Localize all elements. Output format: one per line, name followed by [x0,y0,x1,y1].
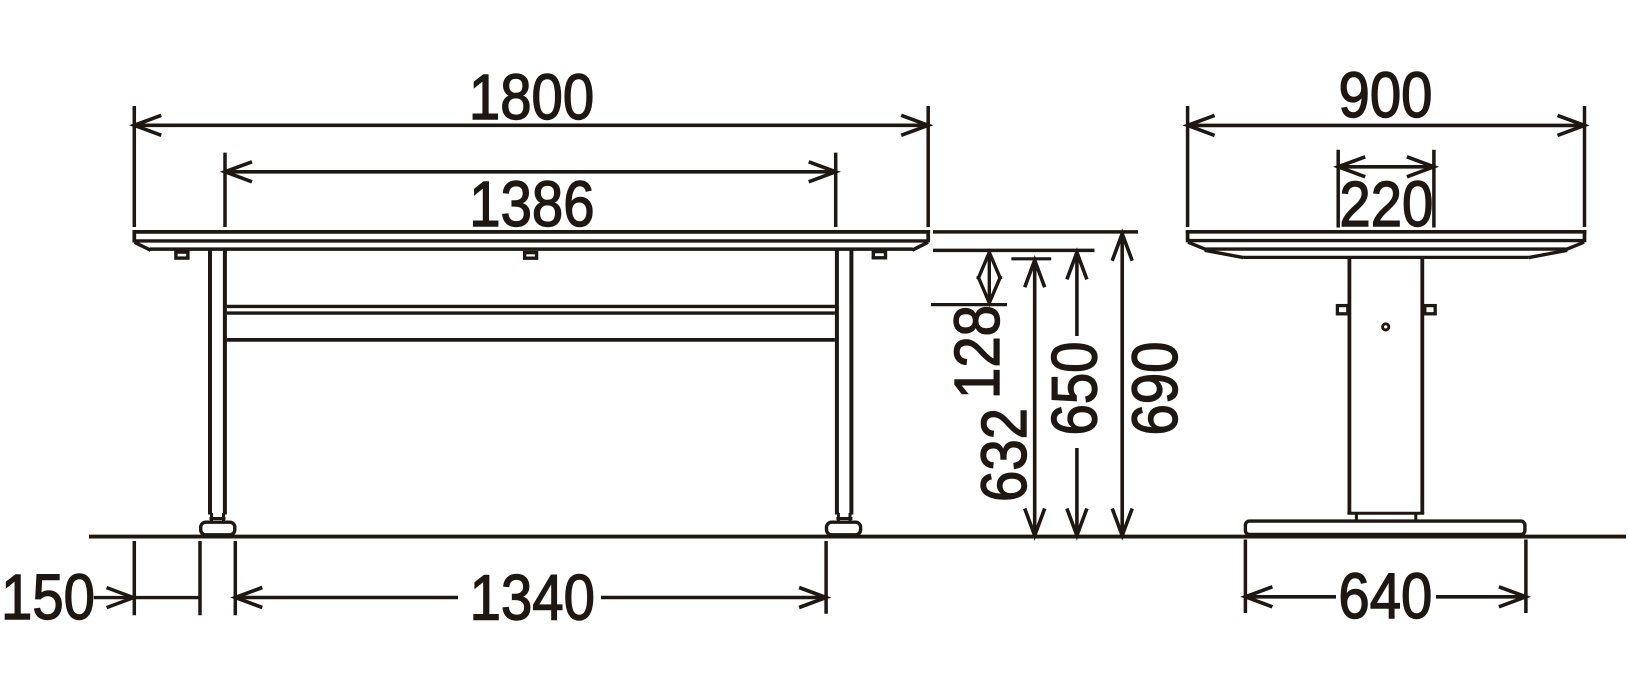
dim 640 arrow right [1499,587,1526,607]
column hole circle [1383,324,1389,330]
dim 220 line [1338,165,1434,169]
vertical ext line underside level [933,249,1095,253]
dim 150 leader line [94,596,134,599]
front tabletop middle line [134,239,928,242]
column collar line [1347,512,1424,515]
vertical ext tick 632 level [1011,257,1051,260]
dim 632 arrow up [1025,260,1045,287]
rail top line [227,305,835,308]
floor line [89,535,1626,539]
dim 640 extension right [1524,540,1528,614]
dim 632 line [1033,260,1037,535]
dim 1800 extension left [133,106,137,227]
side tabletop second line [1188,239,1585,242]
side tabletop left bevel upper [1188,242,1206,249]
dim 1340 line right segment [601,596,826,600]
left leg outer line [208,251,212,515]
dim 1340 ext line foot inner [234,541,238,615]
clip middle under top [525,253,537,259]
svg-text:1800: 1800 [469,61,594,133]
right leg collar line [836,517,852,520]
dim 128 arrow down [978,276,1001,303]
dim 150 ext line table edge [133,541,137,615]
dim 1386 arrow left [225,162,252,182]
svg-text:632: 632 [968,408,1040,502]
dim 690 line [1120,234,1124,536]
side tabletop left edge [1186,230,1190,242]
left leg adjuster stem right [222,513,225,522]
left leg inner line [223,251,227,515]
front tabletop left bevel [135,242,151,250]
front tabletop bottom line [150,247,913,251]
dim 632 arrow down [1025,509,1045,536]
svg-text:1386: 1386 [469,168,594,240]
dim 900 arrow left [1188,115,1215,135]
dim 900 arrow right [1558,115,1585,135]
column stem left [1355,513,1358,521]
right foot cap [827,522,861,535]
side bracket bottom line [1243,256,1528,259]
right leg adjuster stem right [849,513,852,522]
dim 690 arrow up [1112,234,1132,261]
svg-text:640: 640 [1338,560,1432,632]
dim 1800 arrow left [134,115,161,135]
dim 220 arrow right [1407,157,1434,177]
dim 650 line upper segment [1075,252,1079,336]
svg-text:650: 650 [1038,342,1110,436]
dim 650 line lower segment [1075,448,1079,536]
front tabletop right edge [926,230,930,243]
dim 220 extension right [1432,150,1436,228]
front tabletop right bevel [912,242,928,250]
right leg inner line [835,251,839,515]
vertical ext line top surface level [933,230,1138,234]
dim 1340 arrow left [235,588,262,608]
rail bottom line [227,338,835,342]
dim 220 arrow left [1338,157,1365,177]
dim 1340 line left segment [235,596,458,600]
dim 1800 arrow right [901,115,928,135]
svg-text:220: 220 [1339,168,1433,240]
dim 900 line [1188,124,1585,128]
svg-text:150: 150 [1,561,95,633]
dim 1800 line [134,124,928,128]
dim 1386 extension right [834,153,838,227]
dim 220 extension left [1336,150,1340,228]
dim 150 arrow [107,588,134,608]
dim 900 extension left [1186,106,1190,227]
dim 150 line between extensions [134,596,200,599]
column left tab [1337,306,1347,314]
svg-text:1340: 1340 [470,561,595,633]
clip right under top [873,252,885,258]
side tabletop right edge [1583,230,1587,242]
dim 1340 ext line right foot [824,541,828,614]
dim 640 extension left [1244,540,1248,614]
dim 150 ext line foot outer [198,541,202,615]
dim 900 extension right [1583,106,1587,227]
dim 640 arrow left [1245,587,1272,607]
left leg collar line [210,517,226,520]
side tabletop right bevel upper [1567,242,1584,249]
column right line [1420,258,1424,514]
svg-text:128: 128 [941,305,1013,399]
dim 128 arrow up [978,252,1001,279]
rail second line [227,311,835,314]
front tabletop top edge [133,230,931,234]
dim 640 line left segment [1245,595,1336,599]
dim 1340 arrow right [799,588,826,608]
column left line [1348,258,1352,514]
dim 650 arrow down [1067,509,1087,536]
dim 1386 line [225,170,836,174]
side bracket right bevel [1529,250,1568,257]
right leg adjuster stem left [837,513,840,522]
clip left under top [176,252,188,258]
column stem right [1414,513,1417,521]
left foot cap [201,522,235,535]
vertical ext line rail level [931,303,1007,306]
dim 128 line [988,252,991,303]
dim 1800 extension right [926,106,930,227]
svg-text:690: 690 [1119,342,1191,436]
side base plate [1245,521,1525,534]
dim 1386 extension left [223,153,227,227]
column right tab [1425,306,1435,314]
dim 650 arrow up [1067,252,1087,279]
dim 690 arrow down [1112,509,1132,536]
front tabletop left edge [132,230,136,243]
side tabletop third line [1204,247,1568,250]
side bracket left bevel [1205,250,1244,257]
left leg adjuster stem left [210,513,213,522]
svg-text:900: 900 [1339,59,1433,131]
right leg outer line [849,251,853,515]
side tabletop top edge [1186,230,1587,234]
dim 1386 arrow right [809,162,836,182]
dim 640 line right segment [1436,595,1526,599]
